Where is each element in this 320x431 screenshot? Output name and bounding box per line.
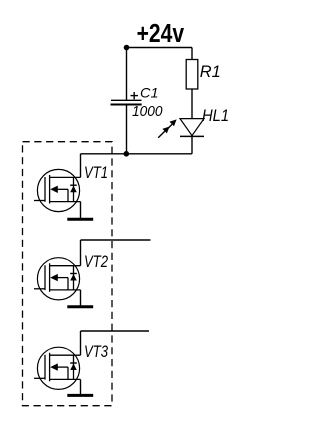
VT2 body diode line: [73, 266, 75, 290]
VT2 substrate arrow: [56, 277, 68, 279]
LED arrow 1: [158, 127, 169, 138]
VT2 channel bar: [49, 263, 51, 292]
VT1 substrate arrow: [56, 188, 68, 190]
node junction top: [124, 45, 130, 51]
transistor VT2: [34, 240, 151, 307]
wire bottom rail horizontal: [81, 153, 193, 155]
VT2 body diode cathode bar: [70, 273, 77, 275]
VT2 source lead: [80, 290, 82, 306]
VT1 drain lead: [80, 154, 82, 178]
capacitor C1 top plate: [111, 99, 142, 101]
VT1 drain line: [50, 176, 81, 178]
VT1 gate lead: [34, 200, 45, 202]
LED arrow 2: [166, 119, 177, 130]
VT1 circle body: [37, 169, 79, 211]
svg-text:VT1: VT1: [84, 163, 108, 182]
svg-text:C1: C1: [140, 85, 159, 101]
VT3 substrate arrow: [56, 366, 68, 368]
VT3 source line: [50, 378, 81, 380]
VT3 body diode cathode bar: [70, 362, 77, 364]
wire R1 branch down: [191, 48, 193, 60]
dashed enclosure box: [23, 142, 113, 406]
VT2 source line: [50, 289, 81, 291]
capacitor C1 bottom plate: [111, 104, 142, 106]
VT2 circle body: [37, 258, 79, 300]
VT1 body diode triangle: [70, 186, 77, 192]
VT1 source lead: [80, 202, 82, 219]
svg-text:+24v: +24v: [137, 20, 185, 48]
VT1 substrate-source connector: [67, 189, 69, 201]
VT3 substrate-source connector: [67, 367, 69, 379]
VT2 ground: [67, 305, 93, 308]
VT2 gate bar: [44, 265, 46, 290]
transistor VT3: [34, 331, 149, 395]
VT2 gate lead: [34, 288, 45, 290]
VT3 body diode triangle: [70, 364, 77, 370]
wire LED to bottom rail: [191, 136, 193, 153]
VT2 drain lead: [80, 240, 82, 266]
svg-text:VT2: VT2: [84, 252, 108, 271]
VT2 drain line: [50, 265, 81, 267]
capacitor C1 plus sign: [131, 92, 139, 99]
VT3 body diode line: [73, 355, 75, 379]
svg-text:VT3: VT3: [84, 342, 108, 361]
VT1 channel bar: [49, 175, 51, 204]
VT3 gate bar: [44, 355, 46, 380]
wire R1 to LED: [191, 89, 193, 119]
VT3 gate lead: [34, 377, 45, 379]
VT2 body diode triangle: [70, 274, 77, 280]
VT2 output wire: [81, 239, 151, 241]
VT3 drain lead: [80, 331, 82, 355]
LED HL1 triangle: [180, 119, 204, 136]
VT3 ground: [67, 394, 93, 397]
VT1 gate bar: [44, 177, 46, 202]
VT2 substrate-source connector: [67, 278, 69, 290]
VT3 drain line: [50, 354, 81, 356]
VT1 body diode cathode bar: [70, 184, 77, 186]
VT3 source lead: [80, 379, 82, 394]
VT1 ground: [67, 218, 93, 221]
VT1 source line: [50, 201, 81, 203]
node junction bottom: [124, 151, 130, 157]
VT3 circle body: [37, 347, 79, 389]
VT3 output wire: [81, 330, 150, 332]
wire capacitor branch upper: [126, 48, 128, 101]
svg-text:R1: R1: [200, 62, 221, 81]
resistor R1: [186, 60, 198, 90]
wire top horizontal to R1 branch: [127, 47, 193, 49]
LED HL1 cathode bar: [180, 135, 204, 137]
VT3 channel bar: [49, 353, 51, 382]
wire capacitor branch lower: [126, 106, 128, 154]
transistor VT1: [34, 154, 108, 219]
svg-text:HL1: HL1: [202, 106, 229, 125]
svg-text:1000: 1000: [132, 104, 163, 120]
VT1 body diode line: [73, 177, 75, 201]
